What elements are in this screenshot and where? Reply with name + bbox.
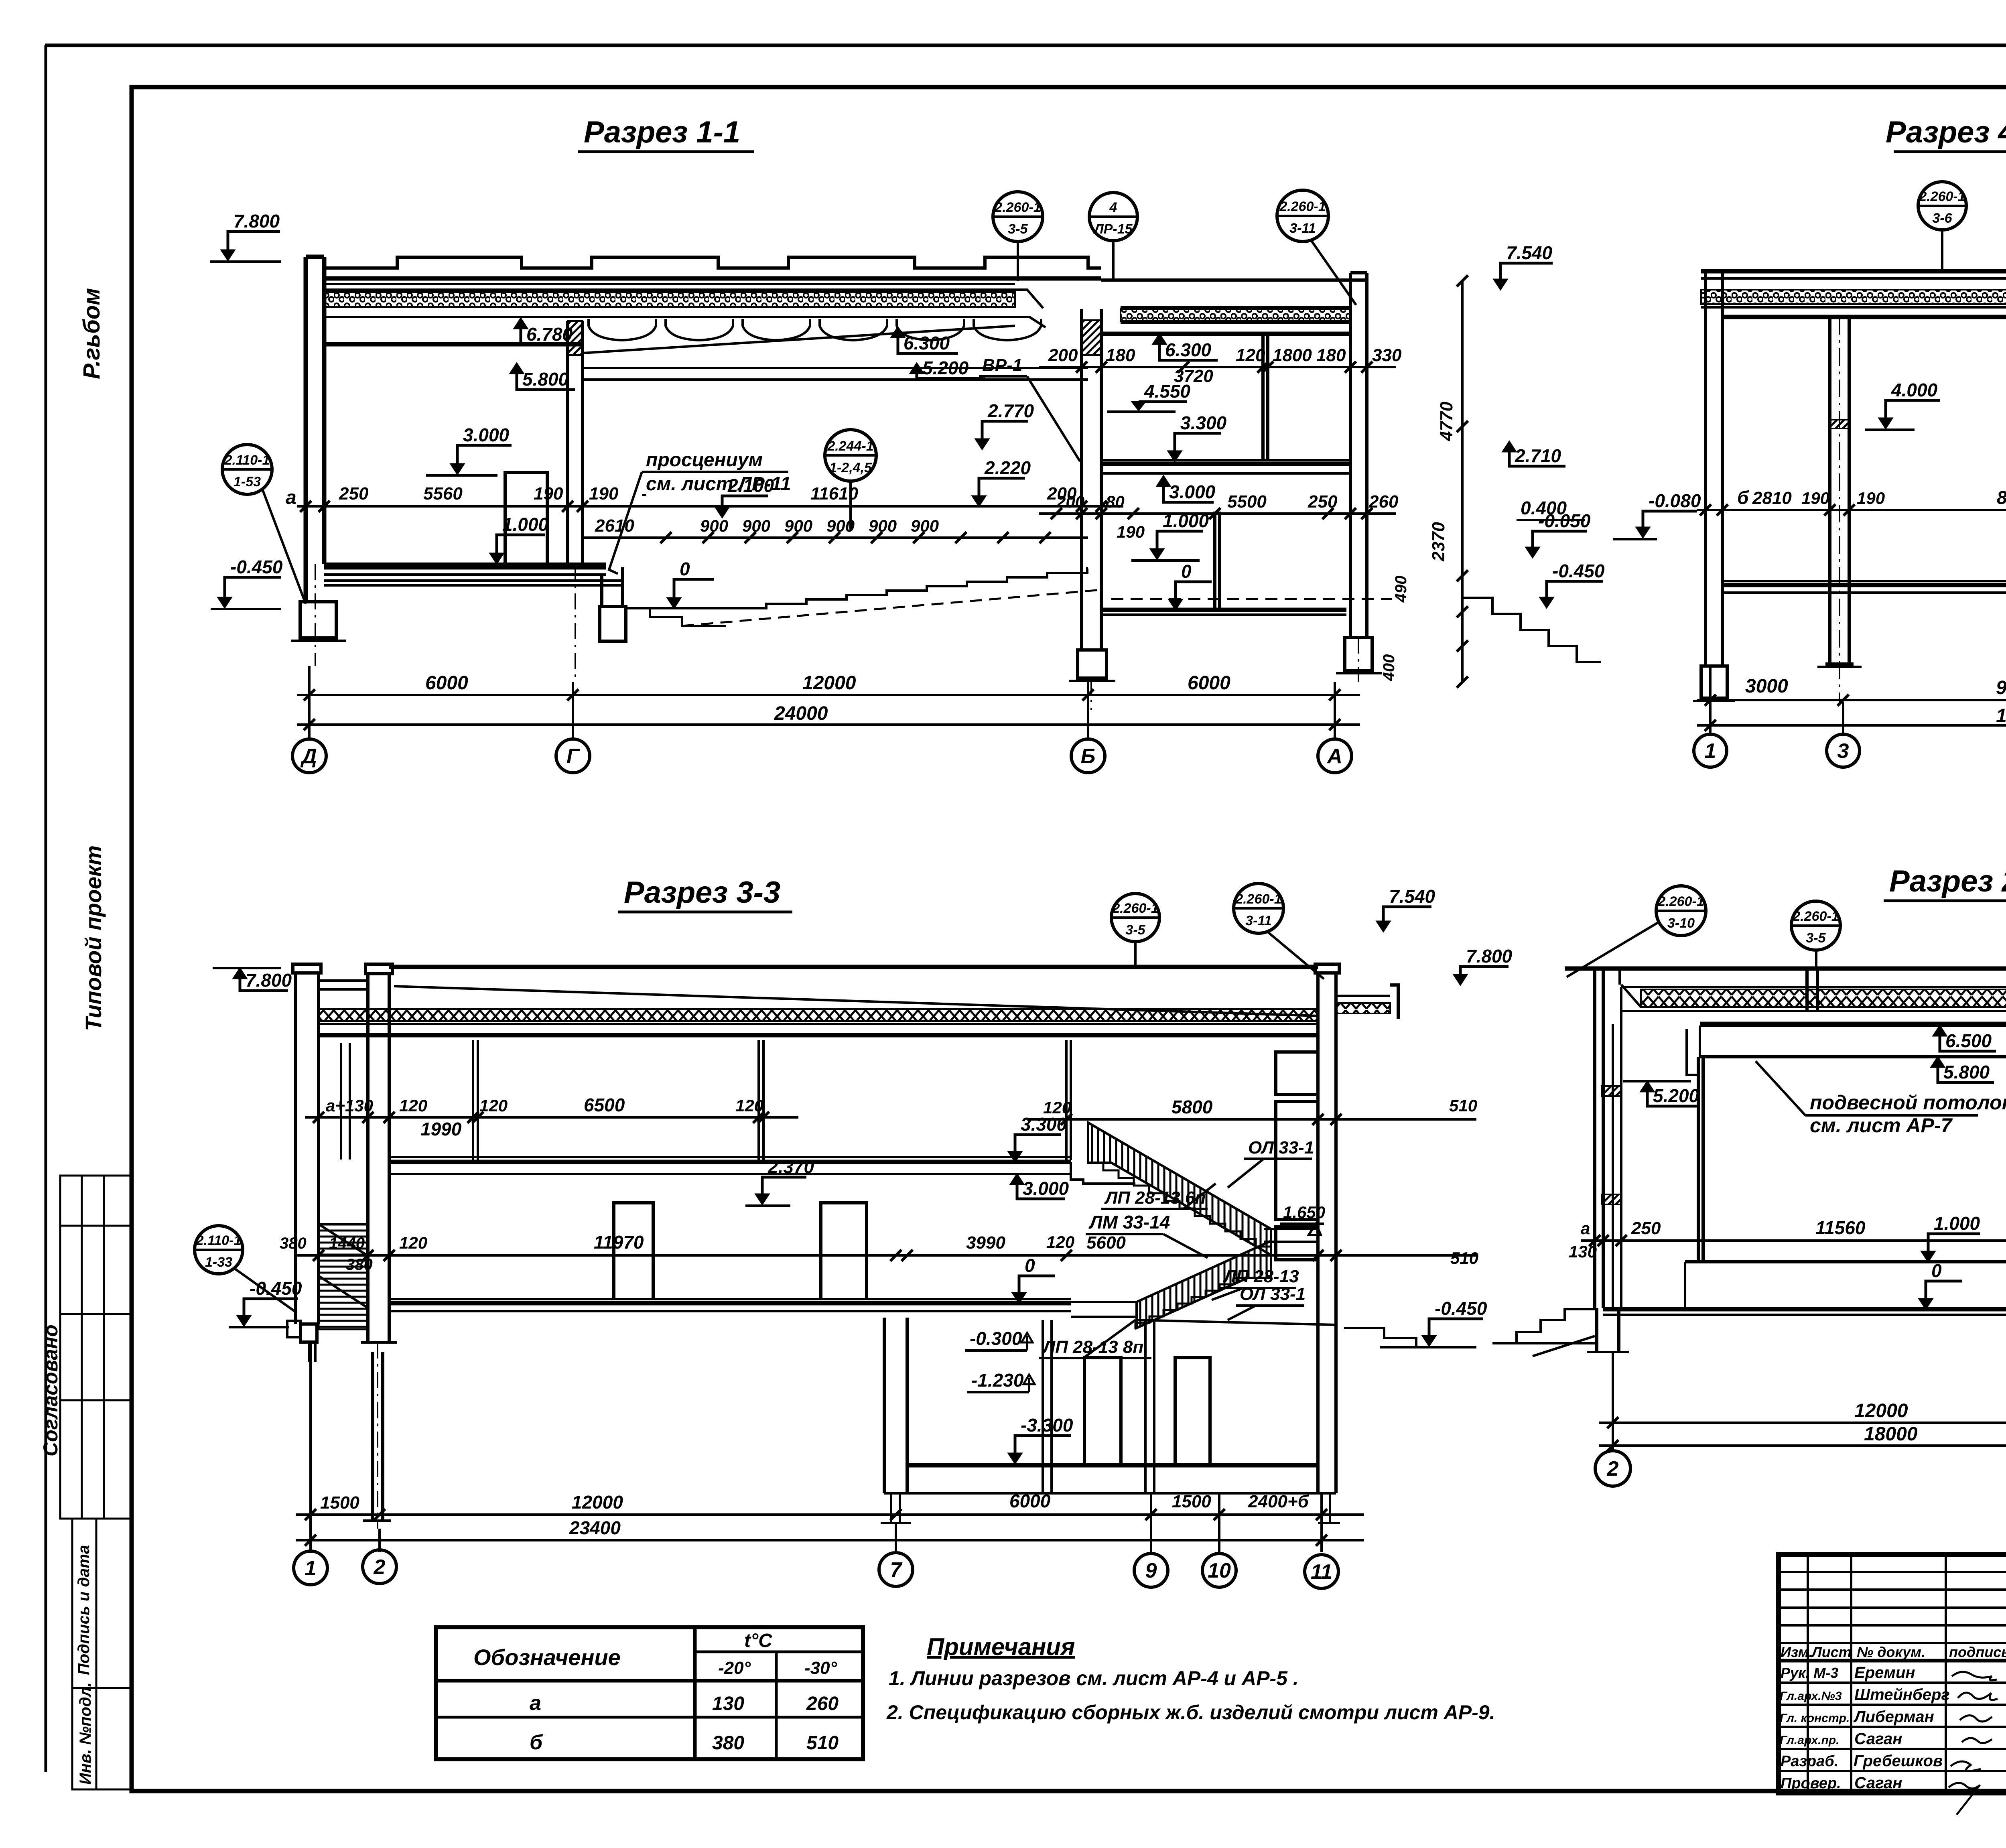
elevation mark 0 xyxy=(1012,1293,1026,1303)
svg-text:2.260-1: 2.260-1 xyxy=(1657,894,1704,909)
wall axis Г xyxy=(568,321,583,564)
main roof 2-2 xyxy=(1565,967,2006,971)
svg-text:Б: Б xyxy=(1081,745,1096,768)
elevation mark 2.100 xyxy=(715,507,729,518)
svg-text:подпись: подпись xyxy=(1949,1644,2006,1660)
column axis 3 xyxy=(1830,317,1849,664)
axis circle 2 xyxy=(363,1550,396,1584)
svg-text:200: 200 xyxy=(1048,345,1078,365)
main roof gravel band xyxy=(324,284,1015,290)
slab 3.000 xyxy=(389,1160,1071,1164)
svg-text:900: 900 xyxy=(700,516,728,535)
wall axis Д xyxy=(306,257,324,602)
footing axis Б xyxy=(1078,650,1107,678)
svg-text:12000: 12000 xyxy=(1854,1400,1908,1422)
stage front wall xyxy=(602,567,623,607)
elevation mark 7.800 xyxy=(233,968,247,979)
svg-text:-1.230: -1.230 xyxy=(971,1370,1024,1391)
svg-text:Гл.арх.№3: Гл.арх.№3 xyxy=(1780,1690,1842,1703)
svg-text:ЛП 28-13: ЛП 28-13 xyxy=(1223,1267,1299,1286)
svg-text:б: б xyxy=(530,1731,543,1754)
svg-text:Согласовано: Согласовано xyxy=(39,1324,62,1456)
entrance steps left xyxy=(1492,1309,1595,1343)
ground dashed annex xyxy=(1111,598,1392,600)
svg-text:а+130: а+130 xyxy=(326,1096,373,1115)
svg-text:-3.300: -3.300 xyxy=(1021,1415,1073,1436)
svg-text:5.800: 5.800 xyxy=(522,369,569,390)
svg-text:380: 380 xyxy=(712,1732,744,1754)
svg-text:11610: 11610 xyxy=(810,484,859,504)
elevation mark 7.800 xyxy=(221,250,235,260)
svg-text:330: 330 xyxy=(1372,345,1402,365)
svg-text:ЛП 28-13 8п: ЛП 28-13 8п xyxy=(1042,1337,1143,1357)
svg-text:1-33: 1-33 xyxy=(205,1255,232,1270)
axis circle Г xyxy=(556,739,590,773)
svg-text:а: а xyxy=(530,1692,541,1715)
svg-text:Гребешков: Гребешков xyxy=(1854,1752,1943,1770)
sloped ceiling line xyxy=(583,326,1015,353)
svg-text:6.500: 6.500 xyxy=(1945,1030,1992,1051)
svg-text:24000: 24000 xyxy=(774,703,828,724)
svg-text:900: 900 xyxy=(784,516,812,535)
elevation mark 6.780 xyxy=(514,318,528,329)
annex slab 3.300 xyxy=(1101,462,1350,466)
svg-text:4770: 4770 xyxy=(1437,402,1456,441)
stage platform xyxy=(1685,1262,2006,1308)
elevation mark 7.540 xyxy=(1377,921,1390,932)
svg-text:ЛР-15: ЛР-15 xyxy=(1093,221,1133,237)
landing step xyxy=(1059,1162,1135,1184)
svg-text:2.260-1: 2.260-1 xyxy=(1279,199,1326,214)
svg-text:2.260-1: 2.260-1 xyxy=(1235,892,1281,907)
dashed line under steps xyxy=(682,590,1101,626)
elevation mark -0.450 xyxy=(237,1316,251,1326)
basement doors xyxy=(1084,1358,1121,1464)
svg-text:1-53: 1-53 xyxy=(233,474,261,489)
svg-text:7.800: 7.800 xyxy=(1466,946,1513,967)
svg-text:7.800: 7.800 xyxy=(246,970,292,991)
elevation mark 5.800 xyxy=(1931,1057,1945,1067)
svg-text:Либерман: Либерман xyxy=(1853,1708,1934,1726)
basement floor xyxy=(907,1463,1318,1468)
svg-text:Гл.арх.пр.: Гл.арх.пр. xyxy=(1780,1734,1840,1747)
svg-text:Провер.: Провер. xyxy=(1781,1775,1841,1792)
elevation mark 0 xyxy=(1919,1299,1933,1309)
svg-text:2: 2 xyxy=(1607,1457,1619,1480)
reference circle 2.260-1/3-5 xyxy=(1111,894,1159,942)
svg-text:1-2,4,5: 1-2,4,5 xyxy=(829,460,872,475)
svg-text:подвесной потолок: подвесной потолок xyxy=(1810,1091,2006,1114)
axis circle Д xyxy=(292,739,326,773)
svg-text:а: а xyxy=(1581,1219,1590,1238)
svg-text:3-5: 3-5 xyxy=(1806,930,1826,946)
axis circle 2 xyxy=(1595,1451,1630,1486)
signatures xyxy=(1949,1672,1998,1815)
svg-text:5560: 5560 xyxy=(423,484,463,504)
svg-text:см. лист АР-7: см. лист АР-7 xyxy=(1810,1114,1953,1137)
svg-text:2370: 2370 xyxy=(1429,522,1448,562)
elevation mark 1.000 xyxy=(1921,1251,1935,1262)
svg-text:2.220: 2.220 xyxy=(984,457,1031,478)
axis circle 1 xyxy=(294,1551,327,1585)
elevation mark -0.450 xyxy=(1540,597,1553,608)
bottom dimensions 4-4 xyxy=(1697,699,2006,701)
axis circle 7 xyxy=(879,1553,913,1586)
elevation mark 1.000 xyxy=(490,553,504,564)
axis circle 3 xyxy=(1827,734,1860,767)
reference circle 2.260-1/3-5 xyxy=(1791,901,1840,950)
svg-text:900: 900 xyxy=(826,516,855,535)
annex ground floor xyxy=(1101,608,1346,612)
main roof 3-3 xyxy=(389,965,1318,969)
footing axis Д xyxy=(300,602,336,638)
svg-text:5.800: 5.800 xyxy=(1943,1062,1990,1082)
svg-text:Р.гьбом: Р.гьбом xyxy=(79,288,105,379)
elevation mark -3.300 xyxy=(1008,1453,1022,1464)
dimension row 900 xyxy=(583,536,1088,539)
stair flight upper (LP 28-13) xyxy=(1088,1123,1271,1255)
axis circle 1 xyxy=(1694,734,1727,767)
right wing roof xyxy=(1336,995,1390,997)
svg-text:2.770: 2.770 xyxy=(987,400,1034,421)
annex roof slab xyxy=(1101,278,1367,282)
svg-text:-20°: -20° xyxy=(718,1658,751,1678)
svg-text:200: 200 xyxy=(1056,492,1084,511)
elevation mark 6.300 xyxy=(891,327,905,337)
reference circle 2.110-1/1-53 xyxy=(222,445,272,494)
svg-text:3000: 3000 xyxy=(1745,676,1788,697)
upper dim row 3-3 xyxy=(305,1116,798,1119)
svg-text:Гл. констр.: Гл. констр. xyxy=(1780,1712,1850,1725)
hall door xyxy=(614,1203,653,1299)
svg-text:7.540: 7.540 xyxy=(1389,886,1435,907)
svg-text:7.540: 7.540 xyxy=(1506,242,1553,263)
svg-text:250: 250 xyxy=(339,484,369,504)
svg-text:5800: 5800 xyxy=(1172,1097,1213,1117)
footing axis А xyxy=(1345,638,1372,671)
ground floor 2-2 xyxy=(1603,1307,2006,1312)
svg-text:t°C: t°C xyxy=(744,1630,773,1651)
axis circle А xyxy=(1318,739,1352,773)
svg-text:-0.080: -0.080 xyxy=(1649,490,1701,511)
svg-text:190: 190 xyxy=(589,484,619,504)
elevation mark -0.450 xyxy=(218,597,231,608)
svg-text:1500: 1500 xyxy=(1172,1492,1211,1511)
svg-text:Разрез 2-2: Разрез 2-2 xyxy=(1889,864,2006,898)
ground floor slab 3-3 xyxy=(389,1301,1071,1306)
elevation mark 0 xyxy=(1169,599,1182,610)
hall ceiling 6.500 xyxy=(1700,1024,2006,1027)
svg-text:1.650: 1.650 xyxy=(1283,1203,1325,1222)
svg-text:23400: 23400 xyxy=(569,1517,621,1538)
floor slab 4-4 xyxy=(1722,583,2006,587)
svg-text:2.110-1: 2.110-1 xyxy=(196,1233,242,1248)
svg-text:80: 80 xyxy=(1106,492,1125,511)
basement walls xyxy=(884,1318,907,1493)
svg-text:900: 900 xyxy=(742,516,770,535)
mid landing xyxy=(1071,1302,1137,1317)
elevation mark 2.710 xyxy=(1502,441,1516,452)
svg-text:Примечания: Примечания xyxy=(927,1633,1075,1660)
svg-text:1500: 1500 xyxy=(320,1493,359,1513)
svg-text:6000: 6000 xyxy=(1188,672,1230,694)
wall Д centerline xyxy=(315,564,316,666)
svg-text:6.300: 6.300 xyxy=(904,333,950,353)
elevation chain column xyxy=(1461,281,1464,682)
svg-text:Разрез 3-3: Разрез 3-3 xyxy=(624,875,780,910)
elevation mark 2.370 xyxy=(755,1194,769,1204)
svg-text:180: 180 xyxy=(1106,345,1135,365)
svg-text:Разраб.: Разраб. xyxy=(1781,1753,1838,1770)
svg-text:120: 120 xyxy=(1236,345,1265,365)
svg-text:5.200: 5.200 xyxy=(1653,1085,1699,1106)
svg-text:120: 120 xyxy=(735,1096,763,1115)
elevation mark -0.450 xyxy=(1422,1336,1436,1346)
svg-text:130: 130 xyxy=(1569,1242,1597,1261)
svg-text:-0.450: -0.450 xyxy=(250,1278,302,1299)
svg-text:2.260-1: 2.260-1 xyxy=(1792,909,1839,924)
hall walls xyxy=(1698,1057,1703,1262)
svg-text:0: 0 xyxy=(1025,1255,1035,1276)
svg-text:120: 120 xyxy=(1046,1233,1074,1251)
svg-text:Рук. М-3: Рук. М-3 xyxy=(1781,1665,1838,1681)
svg-text:ВР-1: ВР-1 xyxy=(982,355,1022,375)
svg-text:10: 10 xyxy=(1208,1559,1231,1582)
svg-text:2: 2 xyxy=(374,1556,386,1579)
svg-text:1440: 1440 xyxy=(329,1235,365,1252)
svg-text:ОЛ 33-1: ОЛ 33-1 xyxy=(1248,1138,1314,1158)
svg-text:3-11: 3-11 xyxy=(1289,221,1316,236)
elevation mark 2.220 xyxy=(972,496,986,506)
svg-text:2610: 2610 xyxy=(595,516,634,536)
svg-text:1.000: 1.000 xyxy=(1934,1213,1980,1234)
reference circle 2.110-1/1-33 xyxy=(195,1226,243,1274)
svg-text:250: 250 xyxy=(1308,492,1338,512)
stair upper landing xyxy=(1264,1229,1318,1242)
svg-text:180: 180 xyxy=(1316,345,1346,365)
roof step/gutter at Б xyxy=(1015,290,1046,327)
svg-text:7.800: 7.800 xyxy=(233,211,280,232)
svg-text:1. Линии разрезов см. лист: 1. Линии разрезов см. лист АР-4 и АР-5 . xyxy=(889,1667,1299,1690)
parapet blocks on main roof xyxy=(324,257,1101,268)
reference circle 2.260-1/3-5 xyxy=(993,192,1043,242)
svg-text:3-5: 3-5 xyxy=(1125,922,1145,938)
svg-text:-0.450: -0.450 xyxy=(1435,1298,1487,1319)
svg-text:Саган: Саган xyxy=(1854,1774,1902,1792)
svg-text:б: б xyxy=(1737,487,1749,508)
svg-text:510: 510 xyxy=(1450,1249,1478,1267)
svg-text:490: 490 xyxy=(1392,576,1410,603)
elevation mark 3.300 xyxy=(1008,1151,1022,1162)
wall axis 2 (3-3) xyxy=(368,974,389,1342)
svg-text:190: 190 xyxy=(534,484,563,504)
svg-text:510: 510 xyxy=(1449,1096,1477,1115)
upper partitions xyxy=(473,1040,478,1160)
svg-text:2.110-1: 2.110-1 xyxy=(224,453,270,468)
elevation mark 4.000 xyxy=(1879,418,1892,428)
svg-text:-0.450: -0.450 xyxy=(1552,560,1605,581)
svg-text:400: 400 xyxy=(1380,654,1398,682)
svg-text:510: 510 xyxy=(806,1732,839,1754)
svg-text:ОЛ 33-1: ОЛ 33-1 xyxy=(1240,1284,1306,1304)
svg-text:6000: 6000 xyxy=(425,672,468,694)
left margin stamp grid xyxy=(60,1176,132,1789)
svg-text:120: 120 xyxy=(479,1096,508,1115)
elevation mark 7.540 xyxy=(1494,279,1507,290)
svg-text:просцениум: просцениум xyxy=(646,449,763,471)
bottom dimensions 2-2 xyxy=(1613,1344,2006,1450)
svg-text:6.300: 6.300 xyxy=(1165,339,1212,360)
svg-text:Инв. №подл.: Инв. №подл. xyxy=(77,1682,94,1785)
svg-text:3990: 3990 xyxy=(966,1233,1005,1253)
svg-text:3.000: 3.000 xyxy=(463,424,510,445)
svg-text:380: 380 xyxy=(280,1235,307,1252)
elevation mark -0.080 xyxy=(1636,527,1650,538)
elevation mark 1.000 xyxy=(1150,549,1164,559)
elevation mark 3.000 xyxy=(1157,476,1170,486)
wall axis А xyxy=(1350,273,1367,638)
svg-text:-0.300: -0.300 xyxy=(970,1328,1022,1349)
elevation mark 5.200 xyxy=(910,363,924,374)
svg-text:12000: 12000 xyxy=(1996,705,2006,727)
svg-text:11560: 11560 xyxy=(1815,1217,1866,1238)
stair flight lower (LM 33-14) xyxy=(1137,1241,1271,1328)
stage ceiling xyxy=(324,342,584,347)
svg-text:5500: 5500 xyxy=(1227,492,1267,512)
svg-text:11970: 11970 xyxy=(594,1232,644,1253)
svg-text:3-5: 3-5 xyxy=(1008,221,1028,237)
svg-text:2.260-1: 2.260-1 xyxy=(1919,189,1965,204)
wall axis 1 xyxy=(1706,271,1722,666)
svg-text:12000: 12000 xyxy=(572,1492,623,1513)
auditorium floor level 0 xyxy=(626,607,726,609)
amphitheatre steps xyxy=(726,569,1088,608)
vent shaft xyxy=(1276,1052,1318,1095)
wall axis 2 (2-2) xyxy=(1595,969,1603,1308)
door opening xyxy=(505,473,547,565)
stairwell wall axis 11 xyxy=(1318,973,1336,1360)
reference circle 2.260-1/3-10 xyxy=(1656,886,1706,936)
svg-text:№ докум.: № докум. xyxy=(1857,1644,1925,1660)
svg-text:3-6: 3-6 xyxy=(1932,211,1952,226)
svg-text:120: 120 xyxy=(399,1096,427,1115)
svg-text:9000: 9000 xyxy=(1996,677,2006,699)
svg-text:5.200: 5.200 xyxy=(922,357,969,378)
axis verticals xyxy=(309,666,1335,739)
reference circle 2.260-1/3-11 xyxy=(1277,190,1328,242)
svg-text:Г: Г xyxy=(566,745,580,768)
svg-text:7: 7 xyxy=(890,1558,903,1582)
svg-text:5600: 5600 xyxy=(1086,1233,1126,1253)
svg-text:250: 250 xyxy=(1631,1218,1661,1238)
elevation mark 5.800 xyxy=(510,363,524,374)
svg-text:Разрез 1-1: Разрез 1-1 xyxy=(584,115,740,149)
bottom dimensions 1-1 xyxy=(297,694,1360,696)
svg-text:12000: 12000 xyxy=(802,672,856,694)
svg-text:3-10: 3-10 xyxy=(1667,916,1695,931)
svg-text:-0.050: -0.050 xyxy=(1538,510,1591,531)
main roof 4-4 xyxy=(1701,269,2006,274)
bay window lines xyxy=(341,1043,350,1160)
svg-text:8620: 8620 xyxy=(1997,487,2006,508)
svg-text:2.244-1: 2.244-1 xyxy=(827,439,873,454)
axis circle 9 xyxy=(1134,1554,1168,1587)
elevation mark 7.800 xyxy=(1454,975,1467,985)
svg-text:Обозначение: Обозначение xyxy=(473,1645,621,1670)
elevation mark 2.770 xyxy=(975,439,989,449)
axis circle Б xyxy=(1071,739,1105,773)
svg-text:2400+б: 2400+б xyxy=(1248,1492,1310,1511)
annex partition lower xyxy=(1215,512,1220,608)
elevation mark 4.550 xyxy=(1132,402,1145,410)
svg-text:А: А xyxy=(1326,745,1342,768)
svg-text:ЛМ 33-14: ЛМ 33-14 xyxy=(1088,1212,1170,1233)
svg-text:6000: 6000 xyxy=(1009,1491,1051,1511)
elevation mark 6.300 xyxy=(1153,334,1166,344)
dimension row 4-4 xyxy=(1697,509,2006,511)
main roof membrane xyxy=(324,276,1101,281)
svg-text:0: 0 xyxy=(1931,1260,1942,1281)
svg-text:1: 1 xyxy=(305,1557,317,1580)
svg-text:11: 11 xyxy=(1311,1560,1332,1584)
svg-text:130: 130 xyxy=(712,1693,744,1714)
svg-text:-30°: -30° xyxy=(804,1658,837,1678)
svg-text:-0.450: -0.450 xyxy=(230,556,283,577)
svg-text:18000: 18000 xyxy=(1864,1424,1918,1445)
svg-text:Разрез 4-4: Разрез 4-4 xyxy=(1886,115,2006,149)
svg-text:3.000: 3.000 xyxy=(1023,1178,1069,1199)
stage floor slab xyxy=(324,565,606,570)
svg-text:9: 9 xyxy=(1145,1559,1157,1582)
svg-text:Еремин: Еремин xyxy=(1854,1664,1915,1681)
svg-text:0: 0 xyxy=(680,558,690,579)
svg-text:2810: 2810 xyxy=(1752,488,1792,508)
reference circle 2.244-1/1-2,4,5 xyxy=(825,430,876,481)
elevation mark -0.050 xyxy=(1526,547,1539,558)
svg-text:3.300: 3.300 xyxy=(1180,412,1227,433)
title block outer box xyxy=(1779,1554,2006,1793)
svg-text:120: 120 xyxy=(399,1233,427,1252)
reference circle 2.260-1/3-6 xyxy=(1918,182,1966,230)
svg-text:6.780: 6.780 xyxy=(526,324,573,345)
elevation mark 5.200 xyxy=(1641,1081,1654,1092)
svg-text:Штейнберг: Штейнберг xyxy=(1854,1686,1950,1704)
suspended ceiling 5.800 xyxy=(1700,1055,2006,1058)
svg-text:4.000: 4.000 xyxy=(1891,380,1938,400)
svg-text:Д: Д xyxy=(300,745,317,768)
svg-text:3-11: 3-11 xyxy=(1245,913,1272,928)
reference circle 4/ЛР-15 xyxy=(1089,193,1137,241)
elevation mark 3.000 xyxy=(451,464,464,474)
parapet upstand xyxy=(1807,969,1817,1011)
left gutter xyxy=(1620,969,1641,1007)
ribbed roof panels (arcs) xyxy=(589,319,1041,340)
svg-text:2.100: 2.100 xyxy=(727,475,774,496)
svg-text:3720: 3720 xyxy=(1174,366,1213,386)
svg-text:3: 3 xyxy=(1837,739,1849,763)
svg-text:4: 4 xyxy=(1109,200,1117,215)
mid dim row 3-3 xyxy=(297,1254,1476,1257)
elevation mark 3.300 xyxy=(1168,451,1182,461)
entrance canopy xyxy=(319,981,368,989)
svg-text:190: 190 xyxy=(1857,489,1885,508)
basement column axis 2 xyxy=(373,1352,383,1521)
entrance stairs hatched xyxy=(319,1224,368,1329)
small pit steps xyxy=(626,608,726,626)
bottom dimensions 3-3 xyxy=(311,1342,1322,1552)
svg-text:260: 260 xyxy=(806,1693,839,1714)
wall axis 1 (3-3) xyxy=(296,973,319,1324)
